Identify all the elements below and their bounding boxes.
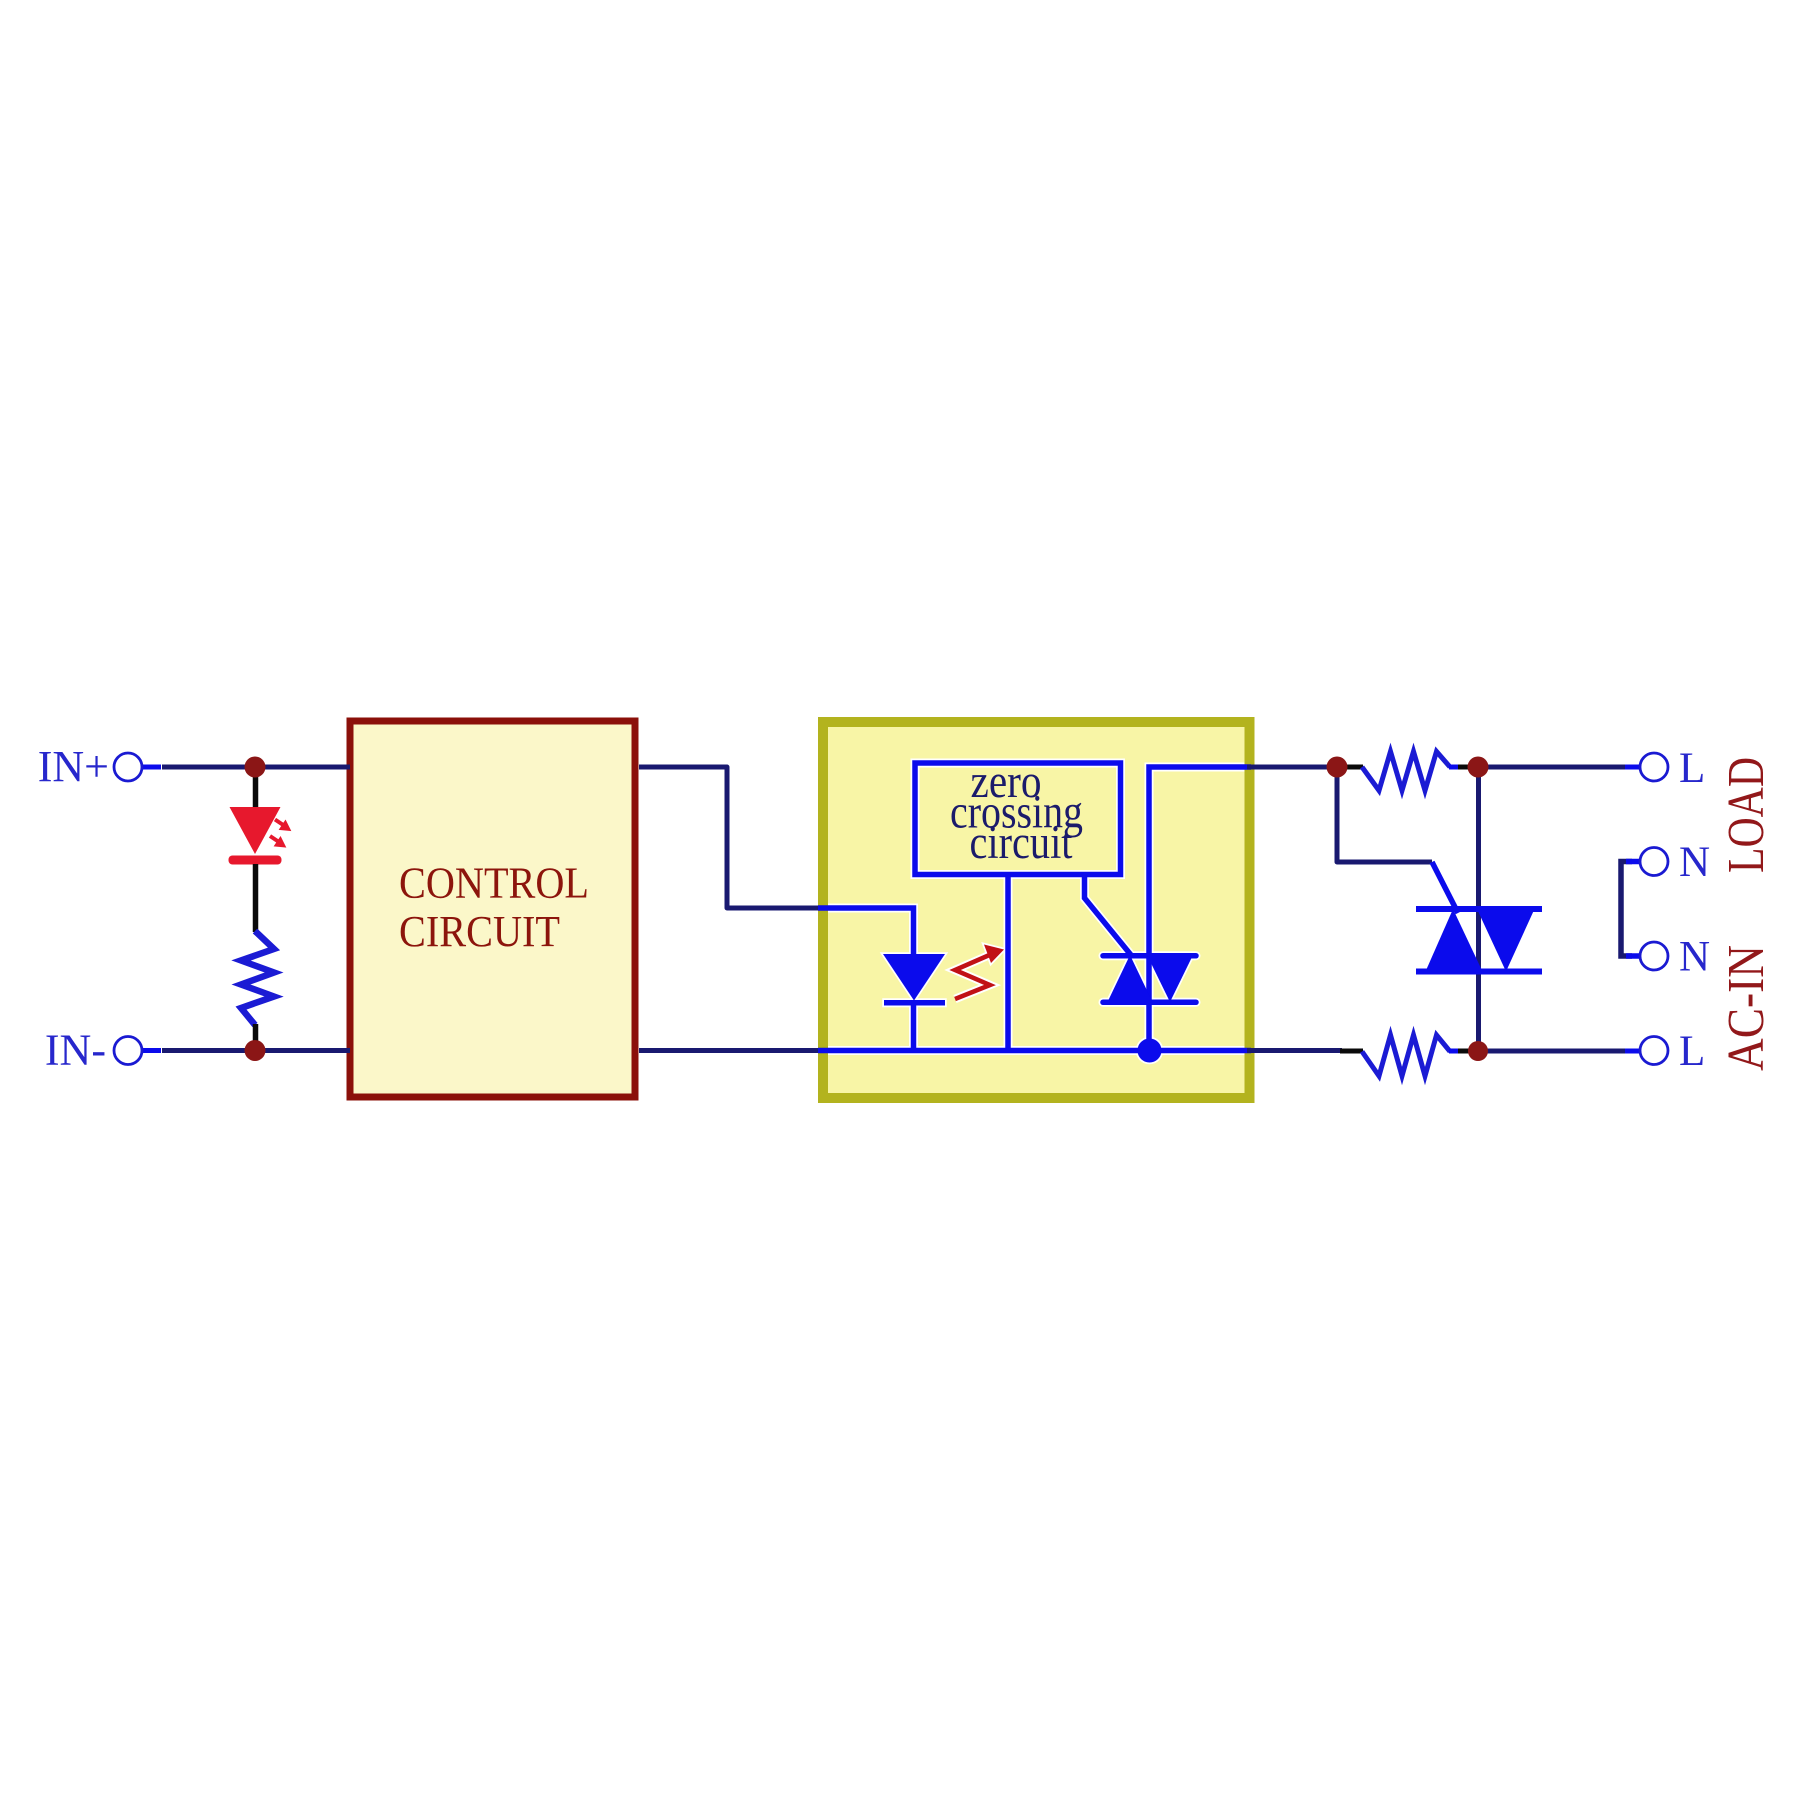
svg-text:IN-: IN- xyxy=(45,1026,106,1075)
LED D1 (red) triangle xyxy=(230,807,281,854)
junction node gate tap xyxy=(1327,757,1348,778)
LED D1 light arrow 1 xyxy=(275,820,291,831)
wire zero crossing left lead to bottom rail xyxy=(1005,874,1011,1051)
main triac Q2 left triangle xyxy=(1426,909,1483,972)
opto LED D2 cathode lead xyxy=(911,1004,917,1051)
optocoupler hybrid box U2 xyxy=(823,722,1250,1098)
svg-text:L: L xyxy=(1679,1028,1705,1075)
control circuit box U1 xyxy=(350,721,635,1097)
wire zero crossing right lead (gate of phototriac) xyxy=(1085,874,1134,958)
opto LED D2 (blue) triangle xyxy=(883,954,945,1001)
wire N1 stub xyxy=(1626,859,1641,865)
resistor R2 (snubber top) xyxy=(1362,752,1450,791)
phototriac Q1 left triangle xyxy=(1108,955,1153,1002)
resistor R1 (input, vertical) xyxy=(241,931,274,1025)
wire gate of main triac xyxy=(1337,767,1432,862)
wire IN+ stub xyxy=(141,765,161,770)
svg-text:IN+: IN+ xyxy=(38,742,109,791)
main triac Q2 right triangle xyxy=(1477,909,1535,972)
terminal L bottom xyxy=(1640,1037,1668,1065)
resistor R2 left lead (black) xyxy=(1340,765,1363,770)
main triac Q2 top bar xyxy=(1416,906,1542,912)
svg-text:N: N xyxy=(1679,934,1710,981)
wire control box output bottom (navy) xyxy=(639,1048,822,1053)
junction node triac bottom xyxy=(1468,1041,1488,1061)
svg-text:N: N xyxy=(1679,839,1710,886)
svg-text:circuit: circuit xyxy=(970,816,1074,869)
wire control box output top xyxy=(639,767,822,908)
wire top rail inside opto box xyxy=(1149,767,1251,1051)
wire main triac vertical xyxy=(1476,767,1481,1051)
wire bottom rail from R2 to L terminal xyxy=(1478,1049,1630,1054)
resistor R3 right lead xyxy=(1449,1049,1460,1054)
terminal N top xyxy=(1640,848,1668,876)
resistor R3 left lead (black) xyxy=(1340,1049,1363,1054)
svg-text:L: L xyxy=(1679,745,1705,792)
terminal IN+ xyxy=(114,753,142,781)
resistor R3 right lead black xyxy=(1458,1049,1478,1054)
wire bottom rail inside opto box xyxy=(818,1048,1251,1054)
junction node triac top xyxy=(1468,757,1489,778)
junction node IN- xyxy=(245,1040,266,1061)
light coupling arrow (red zigzag) xyxy=(955,953,994,999)
main triac Q2 bottom bar xyxy=(1416,969,1542,975)
wire IN+ rail to control box xyxy=(162,765,350,770)
wire N-N bracket xyxy=(1621,862,1632,957)
resistor R3 (snubber bottom) xyxy=(1362,1035,1450,1076)
LED D1 cathode bar xyxy=(229,856,282,865)
junction node IN+ xyxy=(245,757,266,778)
wire stub at L bottom terminal xyxy=(1625,1049,1641,1054)
zero crossing circuit box U3 xyxy=(915,763,1121,875)
resistor R1 bottom lead (black) xyxy=(253,1024,259,1042)
wire IN- rail to control box xyxy=(162,1048,350,1053)
LED D1 light arrow 2 xyxy=(270,836,286,847)
terminal L top xyxy=(1640,753,1668,781)
terminal IN- xyxy=(114,1037,142,1065)
terminal N bottom xyxy=(1640,942,1668,970)
resistor R2 right lead xyxy=(1449,765,1460,770)
svg-text:LOAD: LOAD xyxy=(1718,757,1775,873)
phototriac Q1 top bar xyxy=(1103,953,1196,959)
wire N2 stub xyxy=(1626,953,1641,959)
wire opto LED anode (inside box) xyxy=(818,908,914,954)
svg-text:AC-IN: AC-IN xyxy=(1718,945,1775,1071)
wire bottom rail from opto box to resistor R2 xyxy=(1247,1048,1342,1053)
wire gate diagonal (blue) xyxy=(1432,862,1458,913)
wire top rail opto box to L terminal xyxy=(1247,765,1341,770)
resistor R2 right lead black xyxy=(1458,765,1478,770)
svg-text:CIRCUIT: CIRCUIT xyxy=(399,906,560,956)
wire stub at L top terminal xyxy=(1625,765,1641,770)
LED D1 cathode lead (black) xyxy=(253,864,259,932)
LED D1 anode lead (black) xyxy=(253,767,259,808)
phototriac Q1 bottom bar xyxy=(1103,1000,1196,1006)
svg-text:CONTROL: CONTROL xyxy=(399,858,589,908)
junction node (blue) at phototriac cathode xyxy=(1138,1039,1162,1063)
wire IN- stub xyxy=(141,1048,161,1053)
phototriac Q1 right triangle xyxy=(1148,956,1193,1002)
opto LED D2 cathode bar xyxy=(884,1000,945,1006)
